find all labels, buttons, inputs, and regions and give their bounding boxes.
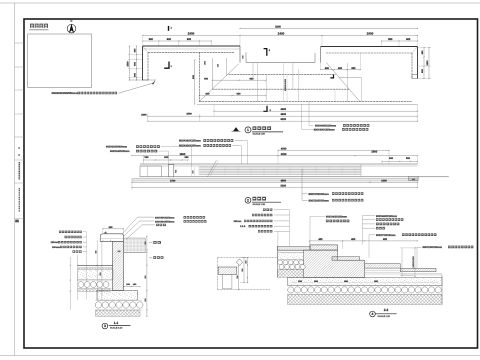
svg-text:SCALE 1:10: SCALE 1:10	[110, 327, 123, 330]
svg-text:800: 800	[388, 38, 393, 41]
svg-text:600/400X250/550mm: 600/400X250/550mm	[52, 92, 79, 95]
sheet title underline	[29, 29, 48, 31]
plan band joint verticals	[252, 63, 254, 80]
plan centre rotated dim	[283, 63, 285, 102]
plan right wall step vertical outer	[320, 47, 322, 63]
plan terrace dim y80.2	[213, 79, 267, 81]
plan inner vertical x226.3	[225, 58, 227, 76]
svg-text:1: 1	[247, 128, 249, 132]
section1 footing speckle	[97, 291, 138, 301]
svg-text:6200: 6200	[281, 118, 287, 121]
plan dim 400 extensions	[320, 53, 322, 70]
elev title underline	[252, 201, 281, 203]
section2 top dim	[310, 240, 418, 242]
svg-text:800X700X30mm: 800X700X30mm	[309, 193, 330, 196]
section2 left edge	[277, 246, 279, 277]
elev band second line	[140, 165, 418, 167]
section2 kerb diamond symbol	[236, 259, 242, 265]
svg-text:800: 800	[250, 77, 255, 80]
plan right wall top outer	[321, 46, 418, 48]
elev band top line	[140, 163, 418, 165]
north arrow N label	[70, 20, 73, 22]
elev dim 3200-2500	[132, 155, 418, 157]
plan terrace ticked line y89.2	[213, 88, 350, 90]
svg-text:120mm: 120mm	[51, 241, 59, 244]
plan terrace bottom line y104.4	[197, 103, 418, 105]
plan right dim extensions	[418, 47, 432, 49]
sheet title text	[30, 24, 34, 28]
svg-text:SCALE 1:50: SCALE 1:50	[253, 133, 266, 136]
section1 right vdim	[146, 236, 148, 316]
plan dim 400-400-600	[321, 69, 361, 71]
plan wall left outer line	[142, 46, 144, 80]
svg-text:4800: 4800	[281, 180, 287, 183]
svg-text:600X400X250mm: 600X400X250mm	[155, 216, 174, 219]
section2 coping	[310, 245, 338, 250]
svg-text:600X400X550mm: 600X400X550mm	[155, 220, 174, 223]
section2 right edge	[441, 275, 443, 305]
plan lower dim A	[214, 110, 418, 112]
plan right wall step vertical inner	[314, 53, 316, 63]
section1 label planting soil	[149, 242, 152, 244]
svg-text:1500: 1500	[127, 61, 130, 67]
section2 left stack soil	[278, 270, 304, 278]
section2 title underline	[376, 313, 397, 315]
svg-text:600: 600	[242, 55, 245, 58]
section1 top leaders	[124, 221, 155, 237]
svg-text:600: 600	[187, 38, 192, 41]
svg-text:800X460X150mm: 800X460X150mm	[179, 140, 201, 143]
svg-text:400: 400	[351, 238, 356, 241]
plan title text	[253, 126, 273, 130]
plan wall corner miter	[143, 46, 149, 52]
plan leader line C	[334, 89, 336, 102]
svg-text:1000: 1000	[381, 180, 387, 183]
section1 paving surface	[78, 264, 113, 266]
section2 low annotation leader	[417, 246, 422, 248]
plan valley top line y62.6	[246, 62, 315, 64]
section mark 2 top	[264, 49, 267, 56]
svg-text:1500: 1500	[426, 60, 429, 66]
svg-text:800X400X250mm: 800X400X250mm	[179, 145, 201, 148]
plan leader line A	[309, 102, 313, 126]
plan right tread line y77.5	[339, 77, 361, 79]
title strip cell dividers	[15, 42, 25, 44]
svg-text:150mm: 150mm	[234, 220, 242, 223]
svg-text:500: 500	[149, 38, 154, 41]
section1 top annotation 3	[156, 224, 167, 226]
svg-text:800: 800	[237, 93, 242, 96]
plan right vdim A	[423, 48, 425, 79]
elev course line 4	[199, 174, 361, 176]
plan leader line B	[302, 104, 314, 129]
svg-text:600: 600	[185, 156, 190, 159]
elev break diagonal	[208, 160, 217, 177]
section1 title underline	[109, 325, 131, 327]
plan dim row2 left	[143, 40, 212, 42]
svg-text:800X400X250mm: 800X400X250mm	[314, 128, 336, 131]
section1 left annotation list	[59, 231, 82, 233]
svg-text:150: 150	[117, 250, 120, 253]
svg-text:400: 400	[318, 238, 323, 241]
plan inner vertical x212.5	[212, 58, 214, 90]
elev dim extensions	[143, 156, 145, 164]
svg-text:4600: 4600	[281, 113, 287, 116]
section1 title circle	[102, 323, 108, 329]
svg-text:800X100X30mm: 800X100X30mm	[309, 200, 330, 203]
svg-text:600X200X600mm: 600X200X600mm	[106, 146, 128, 149]
svg-text:100mm: 100mm	[52, 246, 60, 249]
section1 base speckle	[78, 269, 113, 279]
svg-text:200: 200	[109, 226, 114, 229]
plan dim row0 line	[240, 28, 418, 30]
svg-text:800X700X30mm: 800X700X30mm	[376, 234, 396, 237]
plan dim extension lines	[142, 35, 144, 46]
plan left stair diagonal	[199, 64, 238, 102]
plan terrace dim y95.6	[199, 95, 266, 97]
svg-text:1500: 1500	[203, 61, 206, 65]
section2 slab band	[288, 278, 443, 286]
section2 upper ground ticked line	[217, 257, 277, 259]
plan right wall vertical inner ticked	[411, 53, 413, 79]
section mark 1 bottom	[164, 62, 169, 69]
svg-text:5200: 5200	[281, 185, 287, 188]
plan wall step vertical inner	[245, 52, 247, 62]
svg-text:400: 400	[338, 67, 343, 70]
plan title circle	[245, 127, 251, 133]
section2 gravel band	[288, 287, 294, 293]
svg-text:3200: 3200	[275, 25, 281, 28]
svg-text:4: 4	[372, 312, 374, 316]
section1 soil grid	[123, 238, 145, 253]
svg-text:400: 400	[383, 238, 388, 241]
plan wall top outer line	[143, 45, 241, 47]
plan right wall vertical outer	[417, 47, 419, 79]
section2 step mass	[304, 250, 365, 277]
svg-text:3: 3	[104, 324, 106, 328]
section1 soil hatch thin	[78, 289, 110, 292]
elev ground line 1	[132, 178, 418, 180]
svg-text:600: 600	[351, 67, 356, 70]
section1 coping	[100, 234, 123, 242]
svg-text:800X100X30mm: 800X100X30mm	[423, 246, 443, 249]
section1 left vdims	[69, 257, 71, 310]
title strip tiny text	[18, 147, 20, 149]
section2 tread2 stone	[332, 257, 360, 260]
section2 rot dim lines	[401, 248, 403, 277]
svg-text:400: 400	[325, 67, 330, 70]
svg-text:2900: 2900	[188, 31, 195, 35]
sheet outer thin left line	[14, 3, 16, 356]
elev course line 3	[199, 171, 361, 173]
plan wall end leader	[119, 83, 153, 93]
svg-text:500: 500	[406, 157, 411, 160]
svg-text:800X460X150mm: 800X460X150mm	[376, 215, 398, 218]
sheet outer thin bottom line	[0, 355, 480, 357]
section2 left leader vline	[289, 210, 291, 247]
section2 tread annotation leader	[368, 235, 370, 258]
plan wall top inner ticked line	[148, 51, 234, 53]
elev band bottom line	[140, 176, 449, 178]
section2 left vdims	[247, 258, 249, 283]
plan lower dim B	[148, 115, 418, 117]
plan lower dim C	[148, 120, 418, 122]
section1 left leader vline	[86, 232, 88, 300]
svg-text:2-2: 2-2	[384, 308, 389, 312]
section1 paving line2	[78, 266, 113, 268]
elev mid vdim pair	[191, 167, 193, 175]
section1 coping slope mark	[104, 231, 107, 233]
section1 footing gravel	[95, 302, 101, 308]
section2 left stack lines	[278, 250, 304, 252]
section2 left kerb coping	[218, 267, 237, 274]
north arrow circle	[67, 24, 76, 33]
svg-text:500: 500	[406, 38, 411, 41]
plan left vdim outer	[129, 46, 131, 80]
svg-text:4000: 4000	[281, 147, 287, 150]
svg-text:SCALE 1:25: SCALE 1:25	[253, 203, 266, 206]
elev dim 4000	[278, 149, 389, 151]
elev lower extensions	[131, 179, 133, 190]
key plan square	[28, 34, 92, 88]
plan wall left inner ticked line	[147, 52, 149, 80]
section2 left kerb wall	[221, 274, 223, 289]
svg-text:400X6=2400: 400X6=2400	[284, 78, 287, 91]
svg-text:1-1: 1-1	[114, 321, 119, 325]
section1 soil bottom line	[123, 252, 147, 254]
section2 left annotation list	[263, 209, 273, 211]
section2 annotation B leaders	[363, 215, 376, 217]
plan wall top second line	[143, 48, 241, 50]
elev dim small right	[382, 160, 418, 162]
plan right wall corner miter	[412, 47, 418, 54]
section2 paver slab	[278, 246, 311, 250]
svg-text:500: 500	[145, 156, 150, 159]
svg-text:2400: 2400	[278, 31, 285, 35]
plan right wall inner ticked	[326, 52, 412, 54]
elev end post dark	[409, 176, 418, 180]
svg-text:600X340X25mm: 600X340X25mm	[110, 150, 130, 153]
plan terrace ticked line y101.7	[199, 101, 412, 103]
svg-text:800X400X250mm: 800X400X250mm	[326, 215, 348, 218]
section2 kerb vdim extra	[238, 266, 240, 290]
plan inner left wall ticked	[198, 52, 200, 101]
svg-text:SCALE 1:10: SCALE 1:10	[378, 315, 391, 318]
section1 gravel band	[78, 282, 84, 288]
plan terrace ticked line y74.6	[229, 74, 336, 76]
svg-text:400: 400	[204, 77, 209, 80]
svg-text:3200: 3200	[281, 153, 287, 156]
svg-text:600: 600	[164, 156, 169, 159]
elev ground line 2	[132, 180, 418, 182]
elev course line 1	[199, 166, 361, 168]
elev post	[169, 165, 174, 177]
section mark 2 bottom	[263, 106, 267, 112]
plan wall end leader arrow	[152, 80, 156, 85]
svg-text:2900: 2900	[367, 31, 374, 35]
svg-text:600: 600	[217, 64, 220, 67]
svg-text:1:2.5: 1:2.5	[240, 225, 246, 228]
elev title circle	[245, 197, 251, 203]
plan inner left dim vline	[194, 60, 196, 104]
section2 tread3 stone	[365, 264, 401, 268]
elev course line 2	[199, 168, 361, 170]
plan right stair diagonal	[326, 63, 360, 102]
svg-text:600: 600	[389, 157, 394, 160]
plan dim row2 right	[382, 40, 418, 42]
svg-text:2: 2	[247, 199, 249, 203]
elev course joints	[211, 167, 213, 175]
plan wall left end cap	[143, 79, 149, 81]
section2 lower walk	[400, 268, 436, 271]
section1 footing soil hatch	[96, 310, 141, 316]
section2 left stack gravel	[278, 260, 283, 265]
plan left vdim inner	[136, 46, 138, 80]
plan left bottom dim line	[130, 79, 156, 81]
section2 left kerb edge ticked	[216, 258, 218, 290]
svg-text:2000: 2000	[141, 113, 147, 116]
section1 wall body	[113, 241, 124, 290]
section2 soil hatch band	[288, 294, 443, 304]
elev dim small left	[144, 159, 189, 161]
north arrow needle	[69, 24, 74, 33]
plan lower dim extensions	[147, 113, 149, 121]
plan wall step vertical outer	[239, 46, 241, 63]
section mark 1 top	[168, 26, 170, 31]
svg-text:800X460X150mm: 800X460X150mm	[315, 124, 337, 127]
svg-text:200: 200	[412, 178, 415, 181]
elev lower dim 1	[132, 181, 418, 183]
section1 paving hatch	[78, 267, 113, 269]
svg-text:1500: 1500	[186, 112, 192, 115]
plan left dim extensions	[128, 54, 143, 56]
section mark mid	[330, 74, 333, 78]
section2 left stack speckle	[278, 253, 304, 260]
elev courses fill	[199, 167, 361, 175]
svg-text:2500: 2500	[371, 150, 377, 153]
svg-text:380: 380	[192, 170, 195, 173]
plan dim row1 line	[143, 34, 418, 36]
section2 top dim extensions	[309, 241, 311, 246]
plan title pointer triangle	[233, 127, 239, 131]
plan right vdim B	[428, 48, 430, 79]
elev left end box	[140, 166, 161, 177]
plan title underline	[252, 131, 283, 133]
section2 annotation A leader	[310, 216, 325, 244]
plan right wall end cap	[412, 75, 418, 79]
section1 dim 200	[103, 228, 124, 230]
section2 tread annotation	[369, 234, 375, 236]
section2 title circle	[370, 311, 376, 317]
svg-text:1500: 1500	[170, 180, 176, 183]
section1 label subgrade	[149, 257, 152, 259]
section1 mid vdims	[96, 240, 98, 300]
svg-text:4000: 4000	[281, 108, 287, 111]
elev title text	[253, 197, 268, 201]
elev lower dim 2	[132, 187, 418, 189]
section2 r5 leader vline	[277, 231, 279, 246]
section2 left kerb ground ticked	[217, 289, 270, 291]
elev leader	[302, 169, 308, 194]
svg-text:600: 600	[167, 38, 172, 41]
svg-text:150X2=300: 150X2=300	[412, 256, 415, 268]
sheet outer thin top line	[0, 2, 480, 4]
